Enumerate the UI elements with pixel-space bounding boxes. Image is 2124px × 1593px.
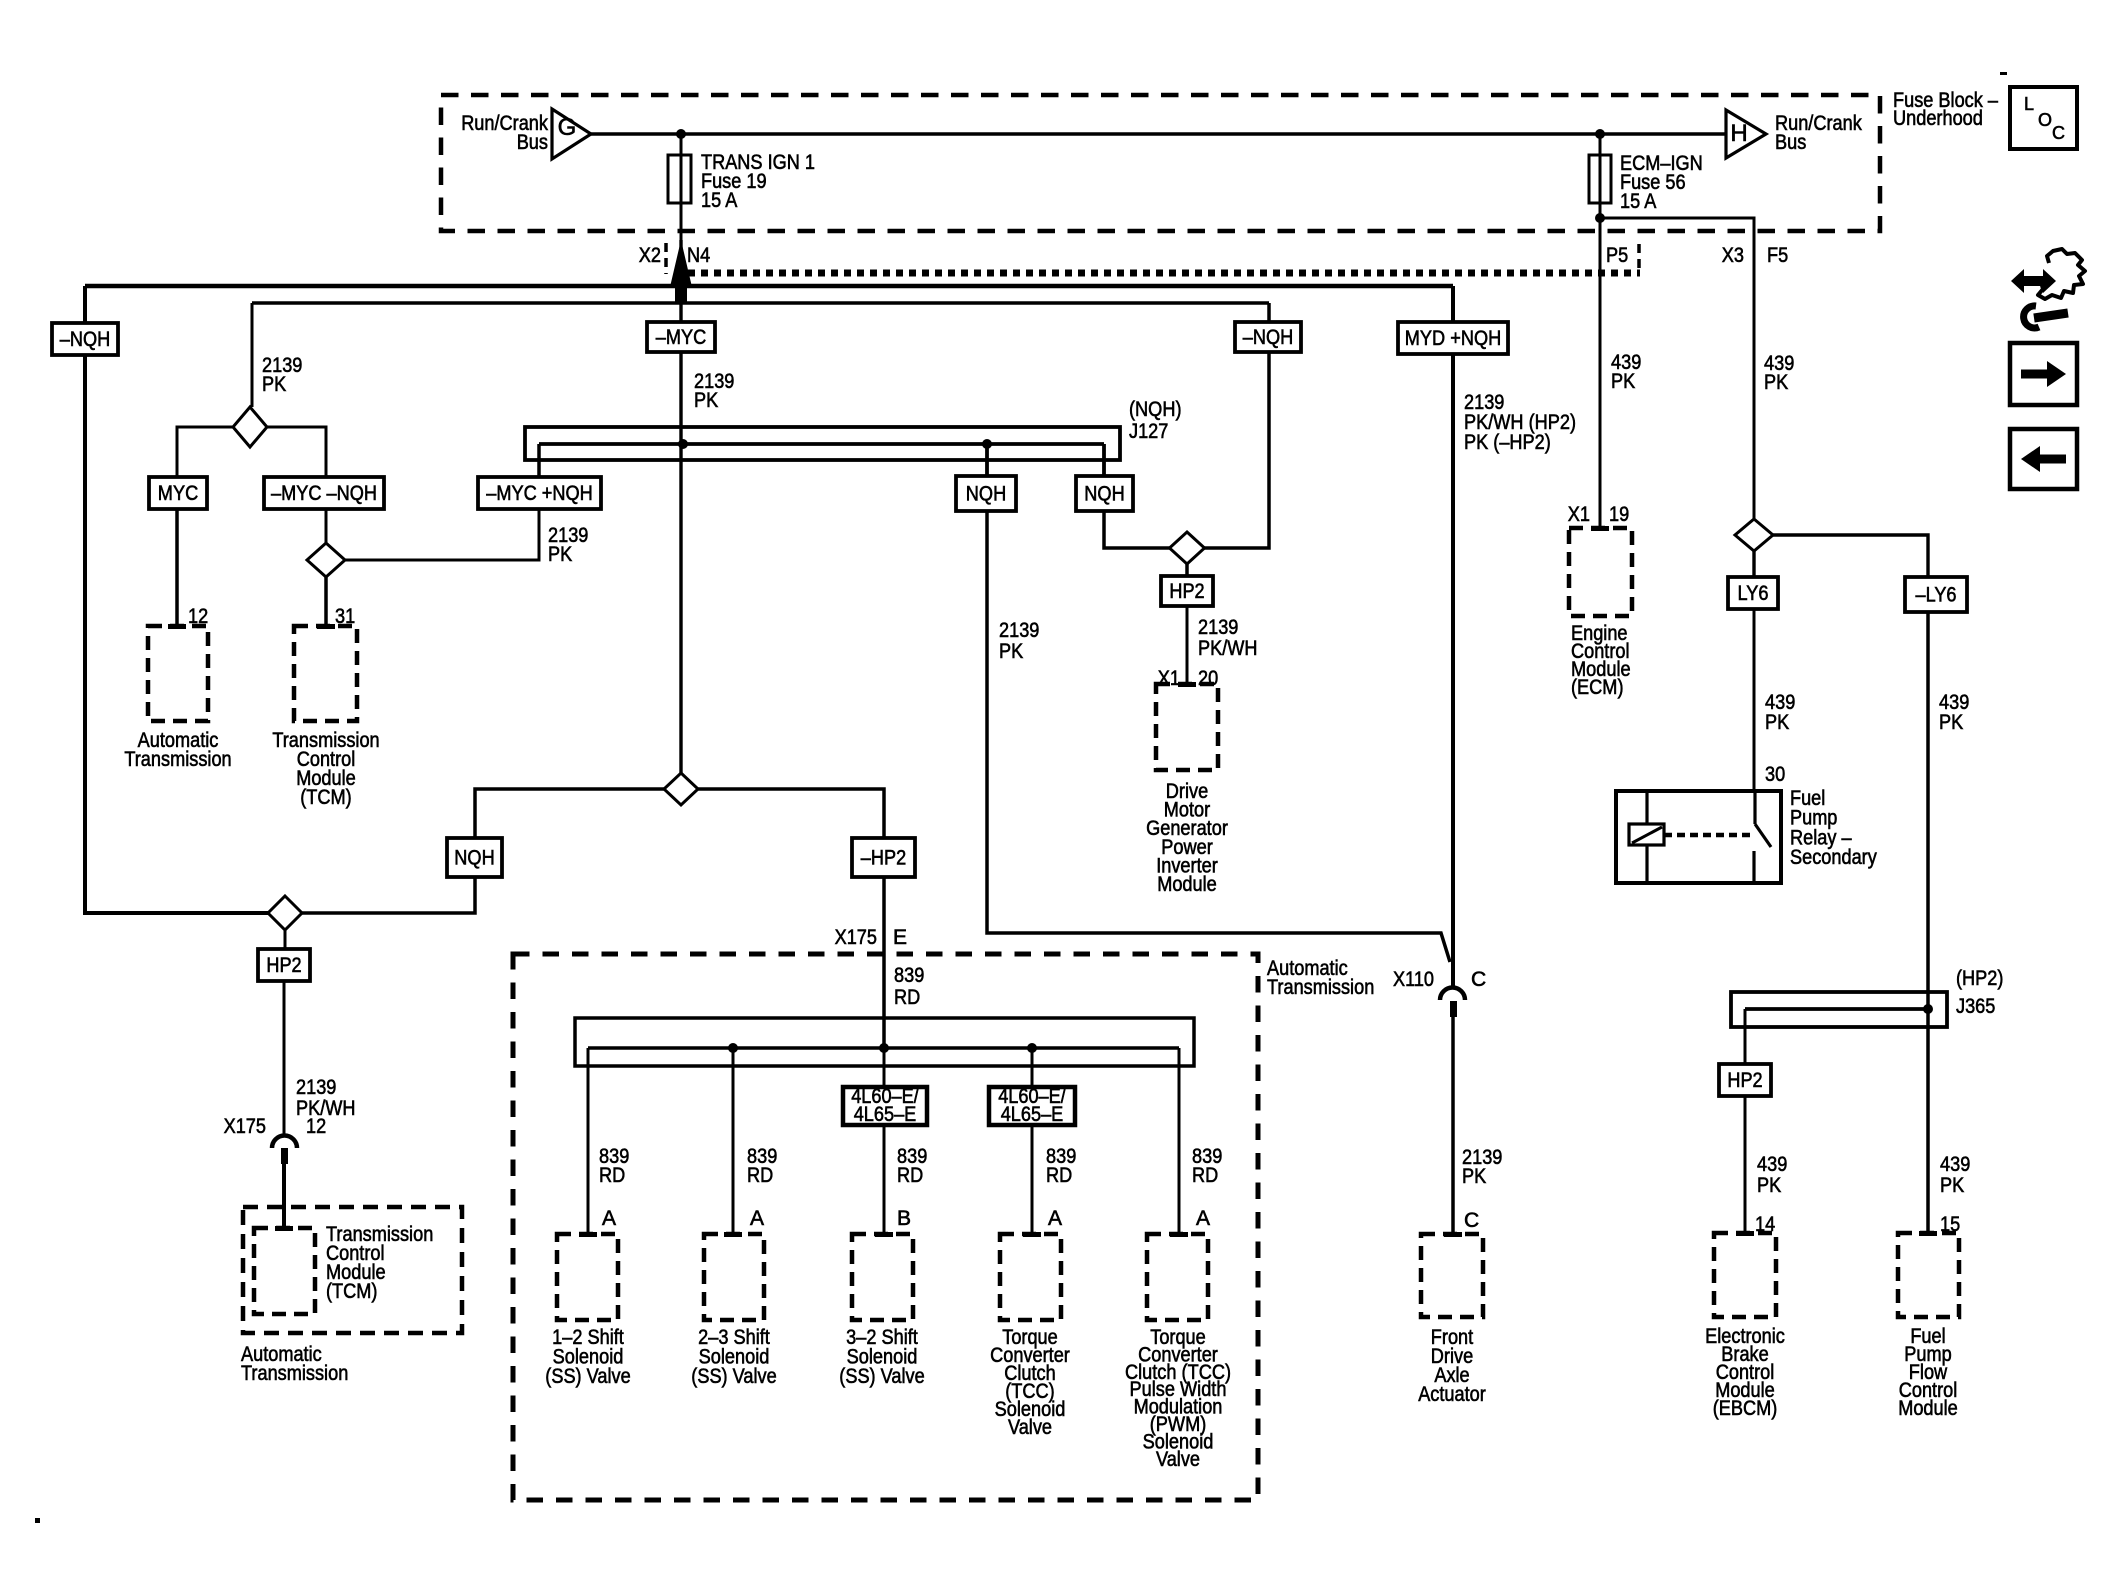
connector 1-2 shift solenoid dashed box bbox=[557, 1232, 618, 1320]
svg-text:PK: PK bbox=[1764, 371, 1788, 394]
svg-text:–NQH: –NQH bbox=[1243, 326, 1294, 349]
svg-text:HP2: HP2 bbox=[1169, 580, 1204, 603]
svg-text:Transmission: Transmission bbox=[124, 748, 231, 771]
svg-text:–MYC –NQH: –MYC –NQH bbox=[271, 482, 377, 505]
label 2139 PK mid bbox=[548, 524, 588, 566]
svg-text:J127: J127 bbox=[1129, 420, 1168, 443]
connector TCM pin31 dashed box bbox=[294, 624, 357, 721]
wire -HP2 down to solenoid bus bbox=[882, 877, 886, 1048]
label TCC PWM Solenoid Valve bbox=[1125, 1326, 1231, 1471]
wire fuse56 drop bbox=[1599, 134, 1602, 530]
fuse block - underhood dashed outline bbox=[441, 95, 1880, 231]
svg-text:HP2: HP2 bbox=[1727, 1069, 1762, 1092]
svg-text:RD: RD bbox=[599, 1164, 625, 1187]
svg-text:Valve: Valve bbox=[1156, 1448, 1200, 1471]
connector Automatic Transmission pin12 dashed box bbox=[148, 624, 208, 721]
label pin B 3 bbox=[897, 1207, 911, 1230]
svg-text:RD: RD bbox=[1192, 1164, 1218, 1187]
wire second bus right drop to -NQH bbox=[1267, 303, 1271, 322]
svg-text:(HP2): (HP2) bbox=[1956, 967, 2003, 990]
svg-text:–LY6: –LY6 bbox=[1916, 584, 1957, 607]
label 439 PK fpfcm bbox=[1940, 1153, 1970, 1197]
label 439 PK ebcm bbox=[1757, 1153, 1787, 1197]
svg-text:20: 20 bbox=[1198, 667, 1218, 690]
svg-text:C: C bbox=[2052, 123, 2065, 143]
wire J127 stub to NQH 1 bbox=[985, 444, 989, 477]
svg-text:N4: N4 bbox=[687, 244, 710, 267]
svg-text:–HP2: –HP2 bbox=[861, 847, 906, 870]
connector Fuel Pump Flow Control Module dashed box bbox=[1898, 1231, 1959, 1317]
label pin A 4 bbox=[1048, 1207, 1062, 1230]
wire diamond2 down to TCM pin 31 bbox=[324, 577, 328, 628]
wire MYD +NQH drop bbox=[1451, 286, 1455, 989]
svg-text:Bus: Bus bbox=[517, 131, 548, 154]
label N4 bbox=[687, 244, 710, 267]
connector TCC solenoid dashed box bbox=[1000, 1232, 1061, 1320]
connector X2 N4 arrow bbox=[670, 240, 692, 304]
label 2139 PK x110 bbox=[1462, 1146, 1502, 1188]
label Transmission Control Module (TCM) bbox=[272, 729, 379, 809]
icon hotlink outline shape bbox=[2038, 249, 2085, 299]
svg-text:X175: X175 bbox=[224, 1115, 266, 1138]
svg-text:E: E bbox=[893, 926, 907, 949]
svg-text:X110: X110 bbox=[1393, 968, 1434, 991]
wire thick bus N4 to left and MYD bbox=[85, 284, 1453, 289]
svg-text:(NQH): (NQH) bbox=[1129, 398, 1182, 421]
wire fuse19 drop to X2 arrow bbox=[680, 134, 683, 240]
label 31 bbox=[335, 605, 355, 628]
svg-text:Actuator: Actuator bbox=[1418, 1383, 1486, 1406]
wire HP2 to DMGPIM pin 20 bbox=[1186, 606, 1189, 686]
label P5 bbox=[1606, 244, 1628, 267]
svg-text:B: B bbox=[897, 1207, 911, 1230]
connector TCC PWM solenoid dashed box bbox=[1147, 1232, 1208, 1320]
net label -HP2 bbox=[852, 838, 915, 877]
net label 4L60-E/4L65-E right bbox=[989, 1085, 1075, 1126]
tick X2 dashed bbox=[664, 243, 668, 274]
svg-text:30: 30 bbox=[1765, 763, 1785, 786]
label Run/Crank Bus right bbox=[1775, 112, 1862, 154]
svg-text:RD: RD bbox=[897, 1164, 923, 1187]
svg-text:Underhood: Underhood bbox=[1893, 107, 1983, 130]
node diamond5 bbox=[1735, 519, 1773, 551]
svg-text:A: A bbox=[602, 1207, 616, 1230]
svg-text:C: C bbox=[1464, 1209, 1479, 1232]
svg-text:Bus: Bus bbox=[1775, 131, 1806, 154]
fuse ECM-IGN Fuse 56 15A bbox=[1589, 152, 1703, 213]
connector TCM2 inner dashed box bbox=[254, 1226, 315, 1314]
svg-text:PK: PK bbox=[262, 373, 286, 396]
label (HP2) J365 bbox=[1956, 967, 2003, 1018]
wire NQH1 long run to X110 bbox=[987, 511, 1450, 962]
wire main Run/Crank bus G to H bbox=[591, 132, 1726, 136]
label TCC Solenoid Valve bbox=[990, 1326, 1070, 1439]
label 2139 PK top mid bbox=[694, 370, 734, 412]
icon arrow left box bbox=[2010, 429, 2077, 489]
icon hotlink wrench bbox=[2024, 306, 2068, 328]
svg-text:(SS) Valve: (SS) Valve bbox=[545, 1365, 630, 1388]
svg-text:PK: PK bbox=[1462, 1165, 1486, 1188]
net label NQH 3 bbox=[447, 838, 502, 877]
icon arrow right box bbox=[2010, 343, 2077, 405]
net label -LY6 bbox=[1905, 577, 1967, 612]
svg-text:NQH: NQH bbox=[454, 847, 494, 870]
net label -NQH left bbox=[52, 323, 118, 355]
label 2139 PK top left bbox=[262, 354, 302, 396]
net label HP2 j365 bbox=[1719, 1064, 1771, 1096]
net label NQH 1 bbox=[956, 476, 1016, 511]
label 2139 PK/WH dmgpim bbox=[1198, 616, 1258, 660]
label 3-2 Shift Solenoid (SS) Valve bbox=[839, 1326, 924, 1388]
wire -MYC -NQH to diamond2 bbox=[325, 509, 328, 543]
label 2139 PK/WH (HP2) PK (-HP2) bbox=[1464, 391, 1576, 454]
svg-text:15 A: 15 A bbox=[1620, 190, 1656, 213]
wire solenoid stub 5 bbox=[1178, 1048, 1181, 1236]
wire second bus left drop to splice diamond bbox=[251, 303, 254, 407]
svg-text:PK: PK bbox=[694, 389, 718, 412]
wire -LY6 to J365 and fuel pump flow module bbox=[1926, 609, 1930, 1235]
svg-text:12: 12 bbox=[306, 1115, 326, 1138]
svg-text:A: A bbox=[1196, 1207, 1210, 1230]
wire diamond1 right to -MYC -NQH bbox=[267, 427, 326, 477]
label Electronic Brake Control Module (EBCM) bbox=[1705, 1325, 1785, 1420]
label 839 RD main bbox=[894, 964, 924, 1009]
label 839 RD 2 bbox=[747, 1145, 777, 1187]
svg-text:2139: 2139 bbox=[296, 1076, 336, 1099]
svg-text:H: H bbox=[1730, 120, 1747, 147]
label Automatic Transmission big box bbox=[1267, 957, 1374, 999]
wire solenoid stub 2 bbox=[732, 1048, 735, 1236]
label Transmission Control Module (TCM) 2 bbox=[326, 1223, 433, 1303]
label Drive Motor Generator Power Inverter Module bbox=[1146, 780, 1228, 896]
label X1 19 bbox=[1568, 503, 1629, 526]
node solenoid bus dot 2 bbox=[728, 1043, 738, 1053]
connector Front Drive Axle Actuator dashed box bbox=[1421, 1232, 1483, 1317]
label Run/Crank Bus left bbox=[461, 112, 548, 154]
svg-text:PK: PK bbox=[1757, 1174, 1781, 1197]
tick P5 dashed bbox=[1637, 244, 1641, 270]
wire left bus drop x85 bbox=[85, 286, 268, 913]
node diamond1 bbox=[233, 407, 267, 447]
label Automatic Transmission left bbox=[124, 729, 231, 771]
wire solenoid stub 1 bbox=[587, 1048, 590, 1236]
label (NQH) J127 bbox=[1129, 398, 1182, 443]
svg-text:439: 439 bbox=[1757, 1153, 1787, 1176]
label 14 bbox=[1755, 1213, 1775, 1236]
wire diamond1 left to MYC bbox=[177, 427, 233, 477]
svg-text:2139: 2139 bbox=[1198, 616, 1238, 639]
node J365 dot bbox=[1923, 1004, 1933, 1014]
icon hotlink double arrow bbox=[2011, 269, 2056, 293]
label X2 bbox=[639, 244, 661, 267]
wire solenoid stub 3 bbox=[883, 1048, 886, 1236]
svg-text:G: G bbox=[558, 114, 577, 141]
bus triangle H bbox=[1726, 110, 1766, 158]
svg-text:–NQH: –NQH bbox=[60, 328, 111, 351]
wire MYC to Automatic Transmission pin 12 bbox=[175, 509, 179, 628]
splice J127 bbox=[525, 427, 1120, 460]
svg-text:(SS) Valve: (SS) Valve bbox=[691, 1365, 776, 1388]
wire NQH2 to diamond3 bbox=[1104, 511, 1170, 548]
svg-text:(SS) Valve: (SS) Valve bbox=[839, 1365, 924, 1388]
label Automatic Transmission bottom bbox=[241, 1343, 348, 1385]
net label -MYC -NQH bbox=[264, 477, 384, 509]
label X1 20 bbox=[1158, 667, 1218, 690]
svg-text:PK: PK bbox=[1940, 1174, 1964, 1197]
label 15 bbox=[1940, 1213, 1960, 1236]
connector 2-3 shift solenoid dashed box bbox=[704, 1232, 764, 1320]
label 1-2 Shift Solenoid (SS) Valve bbox=[545, 1326, 630, 1388]
svg-text:Secondary: Secondary bbox=[1790, 846, 1877, 869]
automatic transmission big dashed box bbox=[513, 954, 1258, 1500]
wire J127 stub to -MYC +NQH bbox=[537, 444, 541, 477]
node J127 splice dot NQH bbox=[982, 439, 992, 449]
label pin A 2 bbox=[750, 1207, 764, 1230]
net label 4L60-E/4L65-E left bbox=[843, 1085, 927, 1126]
svg-text:Module: Module bbox=[1157, 873, 1217, 896]
svg-text:–MYC: –MYC bbox=[656, 326, 707, 349]
svg-text:PK/WH: PK/WH bbox=[1198, 637, 1258, 660]
label 12 bbox=[188, 605, 208, 628]
svg-text:2139: 2139 bbox=[999, 619, 1039, 642]
label 439 PK ecm bbox=[1611, 351, 1641, 393]
wire big diamond right to -HP2 bbox=[698, 789, 884, 838]
svg-text:A: A bbox=[1048, 1207, 1062, 1230]
svg-text:PK: PK bbox=[1765, 711, 1789, 734]
node big diamond bbox=[664, 773, 698, 805]
label Front Drive Axle Actuator bbox=[1418, 1326, 1486, 1406]
label pin C x110 bbox=[1464, 1209, 1479, 1232]
svg-text:PK (–HP2): PK (–HP2) bbox=[1464, 431, 1551, 454]
label 439 PK -ly6 bbox=[1939, 691, 1969, 734]
speck top right bbox=[2000, 72, 2007, 75]
svg-text:P5: P5 bbox=[1606, 244, 1628, 267]
wire -NQH below to diamond bbox=[1204, 352, 1269, 548]
net label HP2 left bbox=[258, 949, 310, 981]
node J127 splice dot on -MYC wire bbox=[678, 439, 688, 449]
connector X175 arc bbox=[272, 1136, 297, 1165]
splice J365 bbox=[1731, 992, 1947, 1027]
net label -NQH right bbox=[1235, 322, 1301, 352]
svg-text:MYC: MYC bbox=[158, 482, 198, 505]
wire branch to X3 F5 bbox=[1600, 218, 1754, 519]
wire LY6 to fuel pump relay 30 bbox=[1753, 609, 1756, 791]
node ECM branch junction bbox=[1595, 213, 1605, 223]
wire J365 stub to HP2 bbox=[1744, 1009, 1747, 1064]
wire diamond5 right to -LY6 bbox=[1773, 535, 1928, 578]
node diamond4 bbox=[268, 896, 302, 930]
wire HP2 left down to X175 bbox=[283, 981, 286, 1136]
svg-text:(TCM): (TCM) bbox=[326, 1280, 378, 1303]
svg-text:Transmission: Transmission bbox=[1267, 976, 1374, 999]
connector TCM2 outer dashed box bbox=[243, 1207, 462, 1333]
label 839 RD 5 bbox=[1192, 1145, 1222, 1187]
connector EBCM dashed box bbox=[1714, 1231, 1776, 1317]
net label -MYC +NQH bbox=[478, 477, 601, 509]
svg-text:HP2: HP2 bbox=[266, 954, 301, 977]
label X175 E bbox=[835, 926, 907, 949]
svg-text:839: 839 bbox=[894, 964, 924, 987]
net label MYC bbox=[149, 477, 207, 509]
node fuse19 tap bbox=[676, 129, 686, 139]
fuse TRANS IGN 1 Fuse 19 15A bbox=[668, 151, 815, 212]
svg-text:NQH: NQH bbox=[966, 483, 1006, 506]
svg-text:F5: F5 bbox=[1767, 244, 1788, 267]
svg-text:J365: J365 bbox=[1956, 995, 1995, 1018]
net label NQH 2 bbox=[1076, 476, 1133, 511]
svg-text:C: C bbox=[1471, 968, 1486, 991]
label 839 RD 4 bbox=[1046, 1145, 1076, 1187]
node solenoid bus dot 3 bbox=[879, 1043, 889, 1053]
svg-text:4L65–E: 4L65–E bbox=[854, 1103, 917, 1126]
label pin A 5 bbox=[1196, 1207, 1210, 1230]
net label LY6 bbox=[1728, 577, 1778, 609]
icon LOC box bbox=[2010, 87, 2077, 149]
label Fuel Pump Flow Control Module bbox=[1898, 1325, 1958, 1420]
wire X110 to Front Drive Axle pin C bbox=[1451, 1017, 1455, 1236]
label X110 C bbox=[1393, 968, 1486, 991]
label Fuel Pump Relay - Secondary bbox=[1790, 787, 1877, 869]
wire HP2 to EBCM pin 14 bbox=[1744, 1096, 1747, 1235]
svg-text:PK: PK bbox=[1939, 711, 1963, 734]
node diamond2 bbox=[307, 543, 345, 577]
svg-text:NQH: NQH bbox=[1084, 483, 1124, 506]
svg-text:PK: PK bbox=[1611, 370, 1635, 393]
wire big diamond left to NQH3 bbox=[475, 789, 664, 838]
svg-text:15 A: 15 A bbox=[701, 189, 737, 212]
connector row dotted line X2..P5 bbox=[688, 270, 1640, 277]
svg-text:(EBCM): (EBCM) bbox=[1713, 1397, 1778, 1420]
label F5 bbox=[1767, 244, 1788, 267]
svg-text:–MYC +NQH: –MYC +NQH bbox=[486, 482, 593, 505]
relay Fuel Pump Relay - Secondary bbox=[1616, 791, 1781, 883]
speck bottom left bbox=[35, 1518, 40, 1523]
svg-text:O: O bbox=[2038, 110, 2052, 130]
svg-text:Valve: Valve bbox=[1008, 1416, 1052, 1439]
svg-text:RD: RD bbox=[894, 986, 920, 1009]
node solenoid bus dot 4 bbox=[1027, 1043, 1037, 1053]
wire NQH3 down to hline bbox=[302, 877, 475, 913]
wire second bus line bbox=[252, 301, 1269, 305]
svg-text:PK: PK bbox=[999, 640, 1023, 663]
svg-text:19: 19 bbox=[1609, 503, 1629, 526]
splice solenoid bus bbox=[575, 1018, 1194, 1066]
svg-text:X2: X2 bbox=[639, 244, 661, 267]
wire diamond5 down to LY6 bbox=[1752, 551, 1755, 577]
connector DMGPIM dashed box bbox=[1156, 682, 1218, 770]
svg-text:X1: X1 bbox=[1158, 667, 1180, 690]
svg-text:Module: Module bbox=[1898, 1397, 1958, 1420]
net label -MYC bbox=[647, 322, 715, 352]
node fuse56 tap bbox=[1595, 129, 1605, 139]
svg-text:MYD +NQH: MYD +NQH bbox=[1405, 327, 1501, 350]
label 439 PK ly6 bbox=[1765, 691, 1795, 734]
bus triangle G bbox=[552, 109, 591, 159]
svg-text:X175: X175 bbox=[835, 926, 877, 949]
label 2-3 Shift Solenoid (SS) Valve bbox=[691, 1326, 776, 1388]
connector ECM dashed box bbox=[1569, 526, 1632, 616]
svg-text:PK: PK bbox=[548, 543, 572, 566]
connector X110 arc bbox=[1440, 988, 1465, 1018]
svg-text:LY6: LY6 bbox=[1738, 582, 1769, 605]
label 439 PK f5 bbox=[1764, 352, 1794, 394]
svg-text:RD: RD bbox=[747, 1164, 773, 1187]
wire J127 stub to NQH 2 bbox=[1102, 444, 1106, 477]
node diamond3 bbox=[1170, 532, 1205, 564]
wire diamond3 to HP2 bbox=[1185, 564, 1189, 576]
wire solenoid stub 4 bbox=[1031, 1048, 1034, 1236]
wire diamond4 down to HP2 left bbox=[284, 930, 287, 949]
svg-text:X3: X3 bbox=[1722, 244, 1744, 267]
label 2139 PK/WH left bbox=[296, 1076, 356, 1120]
svg-text:(ECM): (ECM) bbox=[1571, 676, 1624, 699]
label 2139 PK nqh1 bbox=[999, 619, 1039, 663]
wire -MYC vertical bbox=[679, 240, 682, 773]
label X175 12 bbox=[224, 1115, 327, 1138]
svg-text:RD: RD bbox=[1046, 1164, 1072, 1187]
label Engine Control Module (ECM) bbox=[1571, 622, 1631, 699]
svg-text:A: A bbox=[750, 1207, 764, 1230]
net label MYD +NQH bbox=[1398, 322, 1508, 354]
svg-text:(TCM): (TCM) bbox=[300, 786, 352, 809]
label 839 RD 3 bbox=[897, 1145, 927, 1187]
label 30 bbox=[1765, 763, 1785, 786]
label 839 RD 1 bbox=[599, 1145, 629, 1187]
wire X175 to TCM2 bbox=[282, 1164, 286, 1230]
label pin A 1 bbox=[602, 1207, 616, 1230]
label X3 bbox=[1722, 244, 1744, 267]
label Fuse Block - Underhood bbox=[1893, 89, 1998, 130]
wire diamond2 right to -MYC +NQH bbox=[345, 509, 539, 560]
svg-text:X1: X1 bbox=[1568, 503, 1590, 526]
svg-text:439: 439 bbox=[1940, 1153, 1970, 1176]
svg-text:4L65–E: 4L65–E bbox=[1001, 1103, 1064, 1126]
svg-text:L: L bbox=[2024, 94, 2034, 114]
connector 3-2 shift solenoid dashed box bbox=[852, 1232, 913, 1320]
net label HP2 right bbox=[1161, 576, 1213, 606]
svg-text:Transmission: Transmission bbox=[241, 1362, 348, 1385]
